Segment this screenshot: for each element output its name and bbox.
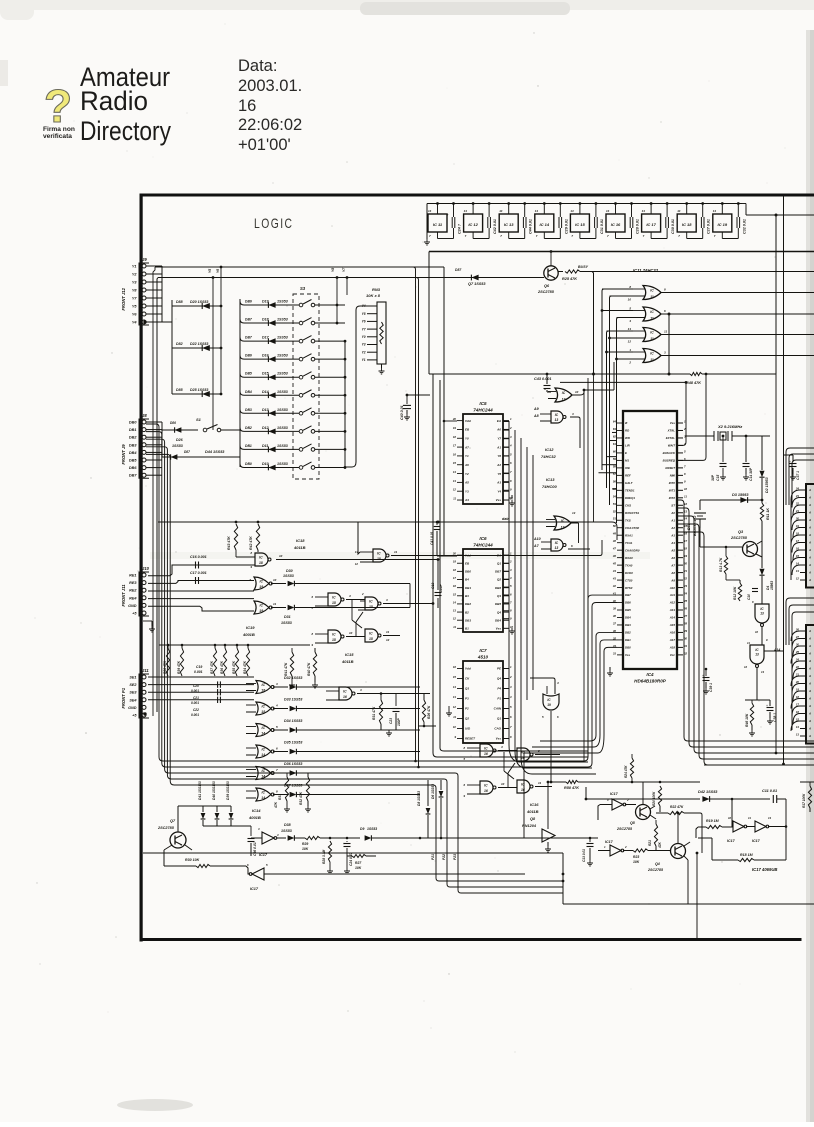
svg-text:TEND1: TEND1 (625, 489, 635, 493)
svg-text:74HC244: 74HC244 (473, 543, 493, 548)
svg-text:SE1: SE1 (129, 676, 136, 680)
svg-text:R42 47K: R42 47K (249, 536, 253, 550)
svg-text:data: data (502, 517, 509, 521)
svg-text:A1: A1 (670, 518, 675, 522)
svg-text:IC: IC (650, 331, 654, 335)
svg-text:14: 14 (453, 600, 457, 604)
svg-text:13: 13 (761, 670, 765, 674)
svg-text:64: 64 (613, 420, 617, 424)
svg-text:15: 15 (453, 592, 457, 596)
svg-text:C17 0.001: C17 0.001 (190, 571, 207, 575)
svg-text:FRONT J12: FRONT J12 (121, 287, 126, 310)
svg-text:11: 11 (386, 630, 389, 634)
svg-text:D22 1SS53: D22 1SS53 (190, 342, 208, 346)
svg-text:GND: GND (128, 706, 137, 710)
svg-text:IC7: IC7 (479, 648, 487, 653)
svg-text:12: 12 (453, 617, 457, 621)
svg-text:IC: IC (377, 551, 381, 555)
svg-text:17: 17 (684, 539, 688, 543)
svg-text:P2: P2 (465, 707, 469, 711)
svg-text:RXS/CTS1: RXS/CTS1 (625, 511, 640, 515)
svg-text:A7: A7 (464, 445, 469, 449)
svg-text:DB4: DB4 (625, 616, 631, 620)
svg-text:D8 1SS53: D8 1SS53 (417, 791, 421, 806)
svg-text:Y7: Y7 (497, 436, 501, 440)
svg-text:Directory: Directory (80, 116, 171, 146)
svg-text:14: 14 (453, 470, 457, 474)
svg-text:B2: B2 (465, 610, 469, 614)
svg-text:DB7: DB7 (495, 570, 501, 574)
svg-text:IC 17: IC 17 (646, 222, 656, 227)
svg-text:13: 13 (760, 612, 764, 616)
svg-text:C18: C18 (431, 583, 435, 589)
svg-text:C29 0.01: C29 0.01 (564, 219, 568, 234)
svg-text:DB0: DB0 (625, 646, 631, 650)
svg-text:10: 10 (279, 554, 283, 558)
svg-text:47K: 47K (658, 841, 662, 849)
svg-text:15: 15 (332, 601, 336, 605)
svg-text:Vdd: Vdd (465, 667, 471, 671)
svg-text:INT0: INT0 (669, 481, 676, 485)
svg-text:0.001: 0.001 (191, 713, 199, 717)
svg-text:Y1: Y1 (362, 358, 366, 362)
svg-text:30P: 30P (711, 474, 715, 481)
svg-text:2SC2785: 2SC2785 (647, 868, 664, 872)
svg-text:M1: M1 (625, 459, 629, 463)
svg-text:R38 47K: R38 47K (163, 660, 167, 674)
svg-text:IC: IC (650, 352, 654, 356)
svg-text:1SS53: 1SS53 (277, 372, 288, 376)
svg-text:61: 61 (613, 442, 617, 446)
svg-text:D25 1SS53: D25 1SS53 (190, 388, 208, 392)
svg-text:59: 59 (613, 457, 617, 461)
svg-text:13: 13 (555, 546, 559, 550)
svg-text:A10: A10 (533, 537, 541, 541)
svg-text:11: 11 (394, 550, 397, 554)
svg-text:13: 13 (572, 511, 576, 515)
svg-text:A1: A1 (496, 445, 501, 449)
svg-text:47K: 47K (274, 801, 278, 809)
svg-text:10K: 10K (355, 866, 362, 870)
svg-text:R28 3.3M: R28 3.3M (322, 849, 326, 864)
svg-text:R17 100K: R17 100K (802, 793, 806, 808)
svg-text:10: 10 (453, 725, 457, 729)
svg-text:XTAL: XTAL (667, 429, 676, 433)
svg-text:IC17: IC17 (610, 792, 619, 796)
svg-text:HD64B180R0P: HD64B180R0P (634, 679, 667, 684)
svg-text:Y2: Y2 (465, 472, 469, 476)
svg-text:Q3: Q3 (738, 530, 744, 534)
svg-text:DB1: DB1 (245, 444, 252, 448)
svg-text:IC6: IC6 (479, 536, 487, 541)
svg-text:IC 16: IC 16 (611, 222, 621, 227)
svg-text:A10: A10 (669, 586, 676, 590)
svg-text:4001B: 4001B (242, 632, 255, 637)
svg-text:DB3: DB3 (245, 408, 252, 412)
svg-text:10: 10 (628, 298, 632, 302)
svg-text:Y3: Y3 (465, 489, 469, 493)
svg-text:A5: A5 (464, 481, 469, 485)
svg-text:11: 11 (453, 715, 456, 719)
svg-text:+: + (343, 842, 345, 846)
svg-text:D4: D4 (766, 586, 770, 590)
svg-text:16: 16 (343, 695, 347, 699)
svg-text:Y2: Y2 (362, 350, 366, 354)
svg-text:R35 47K: R35 47K (232, 660, 236, 674)
svg-text:C37 1: C37 1 (796, 471, 800, 480)
svg-text:38: 38 (613, 614, 617, 618)
svg-text:4011B: 4011B (341, 659, 354, 664)
svg-text:IC12: IC12 (545, 447, 554, 452)
svg-text:BUSY: BUSY (578, 265, 589, 269)
svg-text:A9: A9 (533, 407, 539, 411)
svg-text:19: 19 (259, 609, 263, 613)
svg-text:RE2: RE2 (129, 589, 137, 593)
svg-text:Q3: Q3 (497, 594, 501, 598)
svg-text:R26 47K: R26 47K (427, 705, 431, 719)
svg-text:verificata: verificata (43, 133, 72, 140)
svg-text:DB6: DB6 (625, 601, 631, 605)
svg-text:12: 12 (744, 665, 748, 669)
svg-text:D13: D13 (262, 408, 269, 412)
svg-text:13: 13 (684, 509, 688, 513)
svg-text:14: 14 (642, 209, 646, 213)
svg-text:A4: A4 (464, 498, 469, 502)
svg-text:Vss: Vss (670, 421, 676, 425)
svg-text:IC 19: IC 19 (718, 222, 728, 227)
svg-text:P1: P1 (497, 697, 501, 701)
svg-text:2SC2785: 2SC2785 (730, 536, 748, 540)
svg-text:IC17: IC17 (752, 839, 761, 843)
svg-text:19: 19 (684, 554, 688, 558)
svg-text:FRONT J11: FRONT J11 (121, 584, 126, 607)
svg-text:IC: IC (650, 289, 654, 293)
svg-text:Q4: Q4 (497, 677, 501, 681)
svg-text:C44 0.01: C44 0.01 (529, 219, 533, 234)
svg-text:?: ? (44, 80, 72, 132)
svg-text:13: 13 (796, 569, 800, 573)
svg-text:R33: R33 (278, 794, 282, 800)
svg-text:IC11 74HC32: IC11 74HC32 (633, 268, 659, 273)
svg-text:U/D: U/D (465, 727, 471, 731)
svg-text:63: 63 (613, 427, 617, 431)
svg-text:R13 4.7K: R13 4.7K (719, 557, 723, 572)
svg-text:C31 0.01: C31 0.01 (600, 219, 604, 234)
svg-text:D87: D87 (455, 268, 462, 272)
svg-text:R24 47K: R24 47K (624, 765, 628, 778)
svg-text:P23: P23 (453, 854, 457, 860)
svg-text:DB7: DB7 (129, 474, 137, 478)
svg-text:CKA1/TD0: CKA1/TD0 (625, 526, 640, 530)
svg-text:0.001: 0.001 (191, 701, 199, 705)
svg-text:C14 30P: C14 30P (749, 467, 753, 481)
svg-text:14: 14 (261, 732, 265, 736)
svg-text:A17: A17 (669, 638, 676, 642)
svg-text:J10: J10 (142, 566, 150, 571)
svg-text:FRONT J9: FRONT J9 (121, 444, 126, 465)
svg-text:D34 1SS53: D34 1SS53 (284, 719, 302, 723)
svg-text:Vss: Vss (496, 627, 502, 631)
svg-text:IC4: IC4 (646, 672, 654, 677)
svg-text:74HC32: 74HC32 (541, 454, 556, 459)
svg-text:CTS0: CTS0 (625, 578, 633, 582)
svg-text:0.001: 0.001 (191, 689, 199, 693)
svg-text:Q1: Q1 (497, 717, 501, 721)
svg-text:WAIT: WAIT (668, 444, 675, 448)
svg-text:R31 47K: R31 47K (372, 706, 376, 720)
svg-text:R25 47K: R25 47K (562, 277, 577, 281)
svg-text:1SS53: 1SS53 (277, 354, 288, 358)
svg-text:Y5: Y5 (208, 269, 212, 273)
svg-text:A18: A18 (669, 646, 676, 650)
svg-text:C20: C20 (193, 684, 199, 688)
svg-text:11: 11 (747, 641, 750, 645)
svg-text:C38 1: C38 1 (773, 713, 777, 722)
svg-text:14: 14 (428, 209, 432, 213)
svg-text:B1: B1 (465, 627, 469, 631)
svg-text:C41 0.01: C41 0.01 (430, 531, 434, 545)
svg-text:D82: D82 (176, 342, 183, 346)
svg-text:IC13: IC13 (546, 477, 555, 482)
svg-text:Q1: Q1 (497, 561, 501, 565)
svg-text:DB6: DB6 (245, 300, 252, 304)
svg-text:Q2: Q2 (465, 717, 469, 721)
svg-text:Q8: Q8 (530, 817, 536, 821)
svg-text:13: 13 (628, 327, 632, 331)
svg-text:C23: C23 (389, 718, 393, 724)
svg-text:IC 11: IC 11 (433, 222, 443, 227)
svg-text:DREQ1: DREQ1 (625, 496, 635, 500)
svg-text:A7: A7 (670, 563, 675, 567)
svg-text:52: 52 (613, 509, 617, 513)
svg-text:D20 1SS53: D20 1SS53 (190, 300, 208, 304)
svg-text:IC: IC (332, 632, 336, 636)
svg-text:D86: D86 (170, 421, 176, 425)
svg-text:14: 14 (464, 209, 468, 213)
svg-text:IOE: IOE (625, 466, 630, 470)
svg-text:IC: IC (261, 747, 265, 751)
svg-text:18: 18 (453, 568, 457, 572)
svg-text:IC: IC (484, 746, 488, 750)
svg-text:D12: D12 (262, 426, 269, 430)
svg-text:IC17: IC17 (250, 887, 259, 891)
svg-text:D3 15953: D3 15953 (732, 493, 749, 497)
svg-text:15: 15 (453, 675, 457, 679)
svg-text:2SC2785: 2SC2785 (537, 290, 555, 294)
svg-text:A14: A14 (669, 616, 676, 620)
svg-text:11: 11 (273, 602, 276, 606)
svg-text:R39 47K: R39 47K (177, 660, 181, 674)
svg-text:INT1: INT1 (669, 489, 676, 493)
svg-text:A3: A3 (670, 533, 675, 537)
svg-text:DB4: DB4 (245, 390, 252, 394)
svg-text:14: 14 (535, 209, 539, 213)
svg-text:12: 12 (684, 502, 688, 506)
svg-text:2SC2785: 2SC2785 (157, 826, 175, 830)
svg-text:Firma non: Firma non (43, 126, 75, 133)
svg-text:A16: A16 (669, 631, 676, 635)
svg-text:D10: D10 (262, 462, 269, 466)
svg-text:10: 10 (349, 631, 353, 635)
svg-text:A0: A0 (670, 511, 675, 515)
svg-text:13: 13 (453, 609, 457, 613)
svg-text:11: 11 (650, 358, 654, 362)
svg-text:17: 17 (453, 444, 457, 448)
svg-text:12: 12 (562, 397, 566, 401)
svg-text:DB4: DB4 (495, 618, 501, 622)
svg-text:DB3: DB3 (129, 443, 137, 447)
svg-text:DB7: DB7 (625, 593, 631, 597)
svg-text:R11 1K: R11 1K (766, 508, 770, 520)
svg-text:D6 1SS53: D6 1SS53 (431, 784, 435, 799)
svg-text:R22 47K: R22 47K (670, 805, 684, 809)
svg-text:A6: A6 (670, 556, 675, 560)
svg-text:S1: S1 (196, 417, 202, 422)
svg-text:IC17: IC17 (605, 840, 614, 844)
svg-text:18: 18 (377, 557, 381, 561)
svg-text:DB5: DB5 (129, 459, 137, 463)
svg-text:14: 14 (261, 796, 265, 800)
svg-text:DB0: DB0 (129, 421, 137, 425)
svg-text:4001B: 4001B (248, 815, 261, 820)
svg-text:IC: IC (343, 689, 347, 693)
svg-text:J9: J9 (142, 257, 147, 262)
svg-text:R36 47K: R36 47K (220, 660, 224, 674)
svg-text:100P: 100P (397, 717, 401, 726)
svg-text:10K: 10K (633, 860, 640, 864)
svg-text:16: 16 (238, 97, 256, 115)
svg-text:P21: P21 (431, 854, 435, 860)
svg-text:18: 18 (684, 547, 688, 551)
svg-text:DB2: DB2 (245, 426, 252, 430)
svg-text:C43 0.001: C43 0.001 (534, 377, 552, 381)
svg-text:RXA1: RXA1 (625, 533, 633, 537)
svg-text:12: 12 (355, 562, 359, 566)
svg-text:14: 14 (684, 517, 688, 521)
svg-text:11: 11 (453, 625, 456, 629)
svg-text:10K: 10K (302, 847, 309, 851)
svg-text:R20 100K: R20 100K (652, 791, 656, 806)
svg-text:NMI: NMI (670, 474, 675, 478)
svg-text:10: 10 (501, 782, 505, 786)
svg-text:11: 11 (453, 497, 456, 501)
svg-text:19: 19 (453, 560, 457, 564)
svg-text:1SS53: 1SS53 (283, 574, 294, 578)
svg-text:10: 10 (273, 578, 277, 582)
svg-text:EXTAL: EXTAL (666, 436, 675, 440)
svg-text:16: 16 (484, 752, 488, 756)
svg-text:Y4: Y4 (497, 489, 501, 493)
svg-text:54: 54 (613, 494, 617, 498)
svg-text:13: 13 (768, 816, 772, 820)
svg-text:FRONT P1: FRONT P1 (121, 687, 126, 708)
svg-text:IC: IC (555, 541, 559, 545)
svg-text:A8: A8 (670, 571, 675, 575)
svg-text:1SS53: 1SS53 (172, 444, 183, 448)
svg-text:R18 1M: R18 1M (740, 853, 754, 857)
svg-text:IC: IC (650, 310, 654, 314)
svg-text:19: 19 (259, 585, 263, 589)
svg-text:Q3: Q3 (465, 687, 469, 691)
svg-text:DB1: DB1 (129, 428, 137, 432)
svg-text:IC: IC (259, 603, 263, 607)
svg-text:Q7 1SS53: Q7 1SS53 (468, 282, 486, 286)
svg-text:53: 53 (613, 502, 617, 506)
svg-text:Radio: Radio (80, 86, 148, 116)
svg-text:IC: IC (261, 769, 265, 773)
svg-text:SE2: SE2 (129, 683, 137, 687)
svg-text:IC: IC (521, 750, 525, 754)
svg-text:14: 14 (261, 753, 265, 757)
svg-text:D87: D87 (184, 450, 190, 454)
svg-text:A12: A12 (669, 601, 676, 605)
svg-text:11: 11 (650, 337, 654, 341)
svg-text:1SS53: 1SS53 (367, 827, 377, 831)
svg-text:18: 18 (453, 435, 457, 439)
svg-text:R37 47K: R37 47K (210, 660, 214, 674)
svg-text:16: 16 (453, 452, 457, 456)
svg-text:C13 0.01: C13 0.01 (582, 849, 586, 862)
svg-text:TXS: TXS (625, 518, 631, 522)
svg-text:DB2: DB2 (625, 631, 631, 635)
svg-text:Q6: Q6 (544, 284, 550, 288)
svg-text:Vcc: Vcc (670, 653, 676, 657)
svg-text:IC 12: IC 12 (468, 222, 478, 227)
svg-text:CKA0/DR0: CKA0/DR0 (625, 548, 640, 552)
svg-text:D30: D30 (286, 569, 293, 573)
svg-text:IC: IC (259, 579, 263, 583)
svg-text:GND: GND (128, 604, 137, 608)
svg-text:D41 1SS133: D41 1SS133 (198, 781, 202, 800)
svg-text:C19: C19 (196, 665, 202, 669)
svg-text:REF: REF (625, 474, 631, 478)
svg-text:S3: S3 (300, 286, 306, 291)
svg-text:IC16: IC16 (530, 802, 539, 807)
svg-text:1SS53: 1SS53 (277, 318, 288, 322)
svg-text:32: 32 (684, 651, 688, 655)
svg-text:IC: IC (259, 555, 263, 559)
svg-text:10: 10 (575, 390, 579, 394)
svg-text:IC: IC (555, 413, 559, 417)
svg-text:R43 47K: R43 47K (227, 536, 231, 550)
svg-text:Q7: Q7 (170, 819, 176, 823)
svg-text:R21: R21 (648, 840, 652, 846)
svg-text:IC: IC (562, 391, 566, 395)
svg-text:18: 18 (261, 689, 265, 693)
svg-text:C36 0.01: C36 0.01 (253, 842, 257, 856)
svg-text:LOGIC: LOGIC (254, 215, 294, 231)
svg-text:Y6: Y6 (362, 320, 366, 324)
svg-text:BUSACK: BUSACK (663, 451, 676, 455)
svg-text:14: 14 (677, 209, 681, 213)
svg-text:14: 14 (261, 775, 265, 779)
svg-text:1SS53: 1SS53 (281, 621, 292, 625)
svg-text:51: 51 (613, 517, 617, 521)
svg-text:12: 12 (386, 638, 390, 642)
svg-text:RTS0: RTS0 (625, 586, 633, 590)
svg-text:Y0: Y0 (362, 335, 366, 339)
svg-text:A4: A4 (670, 541, 675, 545)
svg-text:TXA1: TXA1 (625, 541, 633, 545)
svg-text:D39 1SS133: D39 1SS133 (226, 781, 230, 800)
svg-text:14: 14 (606, 209, 610, 213)
svg-text:D42 1SS53: D42 1SS53 (698, 790, 718, 794)
svg-text:EA: EA (497, 419, 501, 423)
svg-text:P22: P22 (442, 854, 446, 860)
svg-text:B4: B4 (465, 578, 469, 582)
svg-text:IC: IC (261, 683, 265, 687)
svg-text:C30 0.01: C30 0.01 (671, 219, 675, 234)
